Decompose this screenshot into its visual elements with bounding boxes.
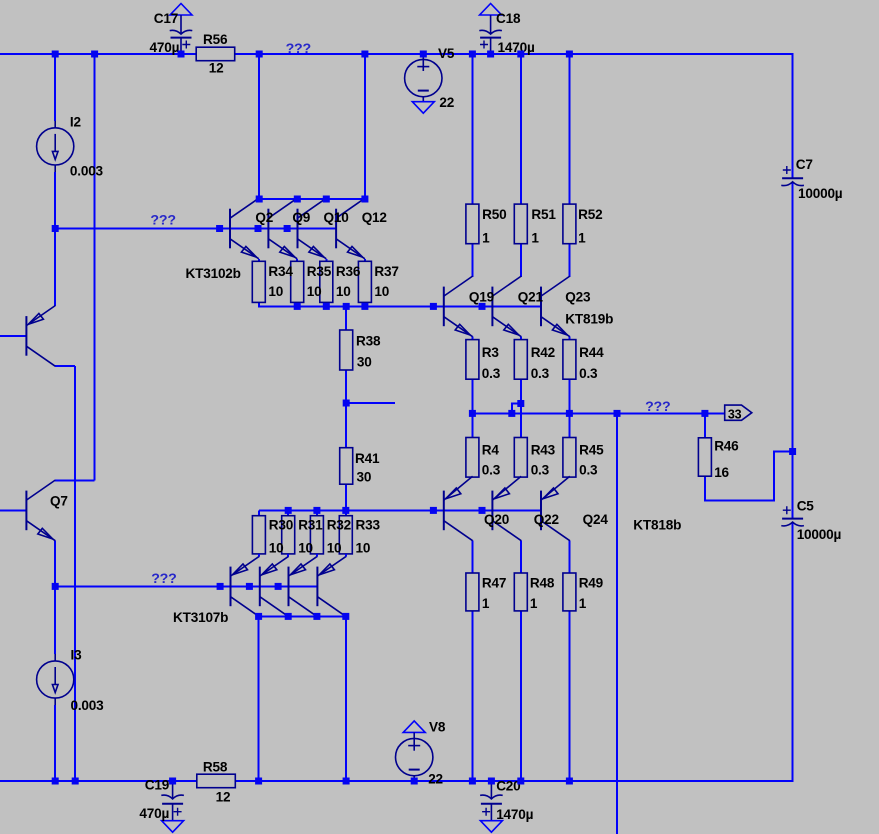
svg-text:R37: R37: [374, 264, 398, 279]
svg-text:1470µ: 1470µ: [498, 40, 535, 55]
resistor R32: [310, 516, 323, 554]
wire top rail to R51: [520, 54, 522, 204]
wire lower resistor rail to output PNP bases: [259, 509, 541, 511]
resistor R31: [282, 516, 295, 554]
svg-text:1: 1: [482, 596, 490, 611]
power arrow symbol above C18: [480, 4, 502, 16]
svg-text:10: 10: [307, 284, 322, 299]
wire I2 to upper ??? node: [54, 172, 56, 229]
junction lower collector rail x=317: [313, 613, 320, 620]
C18 arrow stem lead: [490, 15, 492, 34]
junction driver base pin x=258: [255, 225, 262, 232]
wire base lead of Q7: [0, 509, 26, 511]
wire Q7 collector link: [55, 479, 94, 481]
wire R31 top stub: [287, 510, 289, 515]
svg-text:R34: R34: [268, 264, 293, 279]
C19 stem lead from rail: [172, 781, 174, 798]
power arrow symbol below C19: [162, 821, 184, 833]
transistor Q23: [541, 276, 570, 337]
wire emitter resistor rail to output bases: [259, 302, 541, 306]
resistor R30: [252, 516, 265, 554]
junction bottom rail x=55: [52, 778, 59, 785]
resistor R42: [514, 340, 527, 380]
junction output rail x=617: [614, 410, 621, 417]
transistor Q21: [492, 276, 521, 337]
C17 lead to top rail: [180, 38, 182, 54]
svg-text:10: 10: [269, 541, 284, 556]
resistor R47: [466, 573, 479, 611]
svg-text:30: 30: [357, 470, 372, 485]
wire lower collector rail left drop: [258, 616, 260, 781]
wire upper PNP collector jog: [54, 365, 56, 367]
svg-text:0.3: 0.3: [579, 462, 598, 477]
svg-text:470µ: 470µ: [150, 40, 180, 55]
junction driver collector rail x=365: [361, 196, 368, 203]
resistor R41: [340, 448, 353, 485]
wire R32 bottom stub: [316, 554, 318, 556]
svg-text:R30: R30: [269, 518, 293, 533]
svg-text:R45: R45: [579, 442, 604, 457]
svg-text:R46: R46: [714, 439, 739, 454]
svg-text:0.003: 0.003: [71, 698, 105, 713]
junction emitter rail x=482: [479, 303, 486, 310]
junction bottom rail x=569: [566, 778, 573, 785]
capacitor C7: [781, 166, 804, 186]
junction lower collector rail x=346: [342, 613, 349, 620]
svg-text:R35: R35: [307, 264, 332, 279]
junction bottom rail x=75: [72, 778, 79, 785]
C19 lead plate to power arrow: [172, 804, 174, 821]
wire column C PNP collector to R4x: [568, 541, 570, 573]
junction top rail x=569: [566, 51, 573, 58]
svg-text:22: 22: [439, 95, 454, 110]
transistor Q2: [230, 198, 259, 259]
svg-text:10000µ: 10000µ: [797, 527, 842, 542]
V8 arrow stem lead: [413, 732, 415, 750]
junction top rail x=491: [487, 51, 494, 58]
power arrow symbol above C17: [170, 4, 192, 16]
svg-text:10: 10: [268, 284, 283, 299]
svg-text:V8: V8: [429, 720, 446, 735]
junction lower base rail x=482: [479, 507, 486, 514]
transistor Q12: [336, 198, 365, 259]
wire column C emitter resistor pair: [568, 379, 570, 437]
wire NPN emitter stub C: [568, 337, 570, 340]
svg-text:R38: R38: [356, 334, 381, 349]
wire column C ballast to NPN collector: [568, 244, 570, 277]
resistor R44: [563, 340, 576, 380]
svg-text:???: ???: [150, 213, 175, 229]
svg-text:???: ???: [286, 41, 311, 57]
svg-text:0.3: 0.3: [482, 462, 501, 477]
current source I2: [37, 121, 74, 172]
svg-text:R49: R49: [579, 576, 604, 591]
power arrow symbol below C20: [480, 821, 502, 833]
wire base lead of upper left PNP: [0, 335, 26, 337]
svg-text:R44: R44: [579, 345, 604, 360]
junction top rail x=472: [469, 51, 476, 58]
svg-text:Q7: Q7: [50, 493, 68, 508]
junction mid node at R38: [343, 400, 350, 407]
wire top rail to R52: [568, 54, 570, 204]
wire output node rail: [472, 412, 724, 414]
wire output feedback drop: [616, 413, 618, 834]
svg-text:C20: C20: [496, 778, 520, 793]
resistor R38: [340, 330, 353, 370]
junction lower collector rail x=259: [255, 613, 262, 620]
junction emitter rail x=346: [343, 303, 350, 310]
resistor R58: [197, 774, 236, 788]
svg-text:C5: C5: [797, 498, 815, 513]
svg-text:10000µ: 10000µ: [798, 186, 843, 201]
wire column C R4x to bottom rail: [568, 611, 570, 781]
junction top rail x=95: [91, 51, 98, 58]
wire column A ballast to NPN collector: [471, 244, 473, 277]
C20 stem lead from rail: [490, 781, 492, 798]
junction right column at R46 return: [789, 448, 796, 455]
svg-text:1: 1: [530, 596, 538, 611]
svg-text:KT819b: KT819b: [565, 311, 613, 326]
transistor upper-left PNP: [26, 306, 55, 367]
capacitor C18: [479, 30, 502, 48]
svg-text:10: 10: [327, 541, 342, 556]
wire R34 top stub: [258, 259, 260, 262]
wire riser top rail down at x95: [94, 54, 96, 480]
svg-text:0.003: 0.003: [70, 163, 104, 178]
wire R38 to mid node: [345, 370, 347, 403]
resistor R43: [514, 438, 527, 478]
wire R33 top stub: [345, 510, 347, 515]
svg-text:30: 30: [357, 355, 372, 370]
resistor R35: [291, 261, 304, 302]
svg-text:0.3: 0.3: [531, 366, 550, 381]
transistor lower quad PNP 2: [260, 556, 289, 616]
svg-text:R51: R51: [531, 207, 556, 222]
svg-text:R56: R56: [203, 32, 228, 47]
wire column B ballast to NPN collector: [520, 244, 522, 277]
wire mid node to R41: [345, 403, 347, 448]
junction lower collector rail x=288: [285, 613, 292, 620]
wire top positive supply rail: [0, 54, 793, 178]
svg-text:R36: R36: [336, 264, 361, 279]
junction emitter rail x=326: [323, 303, 330, 310]
svg-text:R41: R41: [355, 451, 380, 466]
junction upper ??? node: [52, 225, 59, 232]
wire upper ??? node to PNP emitter: [54, 229, 56, 306]
capacitor C19: [161, 795, 184, 816]
svg-text:R58: R58: [203, 760, 228, 775]
junction lower base rail x=433: [430, 507, 437, 514]
junction lower base rail x=288: [285, 507, 292, 514]
svg-text:???: ???: [645, 399, 670, 415]
svg-text:Q24: Q24: [583, 512, 609, 527]
svg-text:R48: R48: [530, 576, 555, 591]
junction driver collector rail x=326: [323, 196, 330, 203]
svg-text:10: 10: [336, 284, 351, 299]
transistor lower quad PNP 1: [231, 556, 260, 616]
svg-text:Q19: Q19: [469, 290, 495, 305]
svg-text:C18: C18: [496, 11, 521, 26]
wire R30 bottom stub: [258, 554, 260, 556]
svg-text:I2: I2: [70, 114, 82, 129]
svg-text:R33: R33: [356, 518, 381, 533]
svg-text:12: 12: [209, 61, 224, 76]
wire lower ??? node to I3: [54, 586, 56, 654]
svg-text:R43: R43: [531, 442, 556, 457]
wire column A PNP collector to R4x: [471, 541, 473, 573]
junction top rail x=259: [256, 51, 263, 58]
output net tag 33: [725, 405, 752, 420]
svg-text:R42: R42: [531, 345, 556, 360]
power arrow symbol above V8: [403, 721, 425, 733]
svg-text:16: 16: [714, 465, 729, 480]
wire R37 top stub: [364, 259, 366, 262]
transistor Q9: [268, 198, 297, 259]
svg-text:Q20: Q20: [484, 512, 509, 527]
wire NPN emitter stub B: [520, 337, 522, 340]
resistor R52: [563, 204, 576, 244]
V5 bottom stem lead: [422, 97, 424, 102]
svg-text:10: 10: [356, 541, 371, 556]
wire I3 to bottom rail: [54, 705, 56, 781]
svg-text:C17: C17: [154, 11, 178, 26]
wire R46 to right column: [705, 452, 793, 501]
wire right column C7 to C5: [792, 182, 794, 518]
wire output to R46: [704, 413, 706, 437]
junction lower base rail x=317: [313, 507, 320, 514]
wire riser to driver collector rail right: [364, 54, 366, 199]
resistor R4: [466, 438, 479, 478]
junction bottom rail x=173: [169, 778, 176, 785]
wire column B emitter resistor pair: [520, 379, 522, 437]
V5 stem lead from top rail: [422, 54, 424, 71]
junction emitter rail x=297: [294, 303, 301, 310]
svg-text:470µ: 470µ: [139, 806, 169, 821]
junction top rail x=521: [517, 51, 524, 58]
wire R37 bottom stub: [364, 302, 366, 306]
junction top rail x=423: [420, 51, 427, 58]
wire output jog at column B: [512, 404, 521, 414]
transistor Q22: [492, 476, 521, 541]
capacitor C5: [781, 506, 804, 526]
capacitor C20: [480, 795, 503, 816]
wire R35 bottom stub: [296, 302, 298, 306]
capacitor C17: [170, 30, 193, 48]
wire column B PNP collector to R4x: [520, 541, 522, 573]
C20 lead plate to power arrow: [490, 804, 492, 821]
resistor R45: [563, 438, 576, 478]
wire PNP collector link to x75 column: [55, 365, 75, 367]
transistor Q19: [444, 276, 473, 337]
svg-text:10: 10: [374, 284, 389, 299]
wire R32 top stub: [316, 510, 318, 515]
wire R33 bottom stub: [345, 554, 347, 556]
svg-text:Q23: Q23: [565, 290, 591, 305]
resistor R51: [514, 204, 527, 244]
svg-text:0.3: 0.3: [482, 366, 501, 381]
resistor R56: [196, 47, 235, 61]
junction lower quad base pin x=249: [246, 583, 253, 590]
resistor R36: [320, 261, 333, 302]
wire top rail to I2: [54, 54, 56, 121]
svg-text:Q12: Q12: [362, 210, 388, 225]
junction driver base pin x=220: [216, 225, 223, 232]
resistor R46: [698, 438, 711, 476]
svg-text:10: 10: [298, 541, 313, 556]
svg-text:V5: V5: [438, 46, 455, 61]
wire mid node stub right: [346, 402, 395, 404]
junction lower ??? node: [52, 583, 59, 590]
resistor R50: [466, 204, 479, 244]
junction bottom rail x=414: [411, 778, 418, 785]
wire lower collector rail right drop: [345, 616, 347, 781]
wire R31 bottom stub: [287, 554, 289, 556]
svg-text:Q9: Q9: [292, 210, 310, 225]
svg-text:KT818b: KT818b: [633, 517, 681, 532]
wire R30 top stub: [258, 510, 260, 515]
svg-text:Q22: Q22: [534, 512, 560, 527]
junction bottom rail x=346: [343, 778, 350, 785]
wire upper ??? base bus: [55, 228, 336, 230]
svg-text:R31: R31: [298, 518, 323, 533]
transistor Q7: [26, 480, 55, 541]
svg-text:Q10: Q10: [324, 210, 349, 225]
voltage source V8: [396, 738, 433, 775]
wire column A R4x to bottom rail: [471, 611, 473, 781]
svg-text:22: 22: [428, 772, 443, 787]
svg-text:R50: R50: [482, 207, 506, 222]
svg-text:R32: R32: [327, 518, 352, 533]
resistor R34: [252, 261, 265, 302]
junction bottom rail x=259: [255, 778, 262, 785]
junction jog bottom on output rail: [508, 410, 515, 417]
svg-text:R3: R3: [482, 345, 500, 360]
svg-text:1: 1: [578, 231, 586, 246]
transistor Q10: [298, 198, 327, 259]
junction bottom rail x=491: [488, 778, 495, 785]
current source I3: [37, 654, 74, 705]
junction output rail x=705: [701, 410, 708, 417]
junction emitter rail x=365: [361, 303, 368, 310]
junction driver collector rail x=297: [294, 196, 301, 203]
wire column A emitter resistor pair: [471, 379, 473, 437]
wire NPN emitter stub A: [471, 337, 473, 340]
svg-text:R47: R47: [482, 576, 506, 591]
wire R36 bottom stub: [325, 302, 327, 306]
junction output rail x=472: [469, 410, 476, 417]
junction lower quad base pin x=278: [275, 583, 282, 590]
svg-text:1: 1: [531, 231, 539, 246]
junction top rail x=181: [178, 51, 185, 58]
wire R41 to lower rail: [345, 484, 347, 510]
junction bottom rail x=472: [469, 778, 476, 785]
wire bottom negative supply rail to C5: [0, 523, 793, 781]
voltage source V5: [405, 59, 442, 96]
svg-text:I3: I3: [71, 648, 83, 663]
svg-text:???: ???: [151, 571, 176, 587]
transistor lower quad PNP 3: [289, 556, 318, 616]
svg-text:1470µ: 1470µ: [496, 807, 533, 822]
junction emitter rail x=433: [430, 303, 437, 310]
svg-text:C19: C19: [145, 778, 170, 793]
junction driver base pin x=287: [284, 225, 291, 232]
svg-text:C7: C7: [796, 157, 813, 172]
svg-text:Q2: Q2: [255, 210, 273, 225]
svg-text:1: 1: [579, 596, 587, 611]
wire column B R4x to bottom rail: [520, 611, 522, 781]
svg-text:KT3107b: KT3107b: [173, 610, 228, 625]
wire Q7 emitter down to lower ??? node: [54, 540, 56, 586]
C18 lead to top rail: [490, 38, 492, 54]
resistor R48: [514, 573, 527, 611]
resistor R49: [563, 573, 576, 611]
transistor Q20: [444, 476, 473, 541]
wire riser to driver collector rail left: [258, 54, 260, 199]
svg-text:KT3102b: KT3102b: [186, 266, 241, 281]
svg-text:0.3: 0.3: [531, 462, 550, 477]
transistor lower quad PNP 4: [317, 556, 346, 616]
resistor R3: [466, 340, 479, 380]
svg-text:R4: R4: [482, 442, 500, 457]
junction top rail x=55: [52, 51, 59, 58]
junction output rail x=569: [566, 410, 573, 417]
svg-text:Q21: Q21: [518, 290, 544, 305]
junction driver collector rail x=259: [256, 196, 263, 203]
wire driver collector rail: [259, 198, 365, 200]
svg-text:33: 33: [728, 407, 742, 421]
wire rail to R38: [345, 306, 347, 330]
wire lower ??? base bus: [55, 585, 317, 587]
junction top rail x=365: [361, 51, 368, 58]
C17 arrow stem lead: [180, 15, 182, 34]
junction lower base rail x=346: [342, 507, 349, 514]
junction jog top at R42 bottom: [517, 400, 524, 407]
power arrow symbol below V5: [412, 102, 434, 114]
junction lower quad base pin x=220: [217, 583, 224, 590]
resistor R37: [358, 261, 371, 302]
svg-text:0.3: 0.3: [579, 366, 598, 381]
svg-text:R52: R52: [578, 207, 603, 222]
svg-text:12: 12: [216, 790, 231, 805]
transistor Q24: [541, 476, 570, 541]
wire top rail to R50: [471, 54, 473, 204]
wire x75 column down to bottom rail: [74, 366, 76, 781]
wire R35 top stub: [296, 259, 298, 262]
V8 bottom stem lead: [413, 776, 415, 781]
junction bottom rail x=521: [517, 778, 524, 785]
wire lower quad collector rail: [259, 615, 347, 617]
svg-text:1: 1: [482, 231, 490, 246]
resistor R33: [339, 516, 352, 554]
wire R36 top stub: [325, 259, 327, 262]
